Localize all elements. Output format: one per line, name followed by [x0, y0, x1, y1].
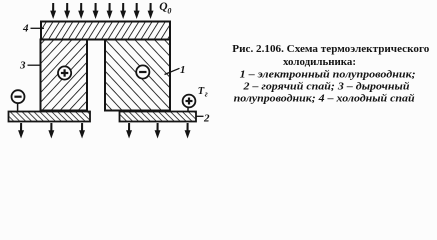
n-type leg 1 (right column) [105, 40, 170, 111]
caption title line 2 [283, 57, 356, 68]
label 3 with leader line [19, 60, 40, 72]
svg-text:T: T [198, 86, 205, 97]
label 2 with leader dash [196, 113, 210, 125]
svg-text:0: 0 [167, 7, 171, 16]
hot junction plate (bottom left) [9, 112, 91, 122]
label Tr (hot side temperature) [198, 86, 208, 99]
cold junction plate 4 (top bar) [41, 22, 170, 40]
svg-text:2: 2 [203, 113, 210, 125]
minus terminal (bottom left) [12, 90, 25, 111]
plus terminal Tr (bottom right) [183, 95, 196, 112]
caption legend line 3 [234, 93, 415, 104]
label 1 with leader line [165, 64, 186, 76]
caption title line 1 [232, 44, 429, 55]
svg-text:1 – электронный полупроводник;: 1 – электронный полупроводник; [240, 69, 416, 80]
heat-outflow arrows (bottom left plate) [18, 123, 85, 139]
svg-text:1: 1 [180, 64, 186, 76]
heat-inflow arrows Q0 (top row) [50, 3, 153, 19]
label 4 with leader line [22, 23, 44, 35]
svg-text:г: г [205, 90, 208, 99]
caption legend line 2 [242, 81, 409, 92]
heat-outflow arrows (bottom right plate) [126, 123, 190, 139]
minus carrier symbol in n-leg [136, 65, 149, 78]
hot junction plate 2 (bottom right) [120, 112, 197, 122]
svg-text:4: 4 [22, 23, 29, 35]
svg-text:холодильника:: холодильника: [283, 57, 356, 68]
svg-text:Q: Q [159, 1, 167, 13]
svg-text:полупроводник; 4 – холодный сп: полупроводник; 4 – холодный спай [234, 93, 415, 104]
caption legend line 1 [240, 69, 416, 80]
svg-text:3: 3 [19, 60, 26, 72]
svg-text:Рис. 2.106. Схема термоэлектри: Рис. 2.106. Схема термоэлектрического [232, 44, 429, 55]
plus carrier symbol in p-leg [58, 66, 71, 79]
svg-text:2 – горячий спай; 3 – дырочный: 2 – горячий спай; 3 – дырочный [242, 81, 409, 92]
p-type leg 3 (left column) [41, 40, 88, 111]
label Q0 [159, 1, 171, 15]
